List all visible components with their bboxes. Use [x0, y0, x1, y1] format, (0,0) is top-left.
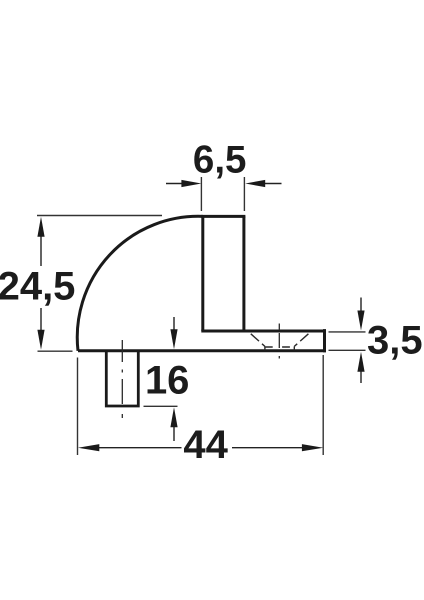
peg centerline [121, 340, 123, 418]
countersink hidden cone right [294, 334, 308, 347]
dimension 6,5 extension line left [200, 177, 202, 211]
dome arc [77, 216, 203, 350]
post right edge [242, 216, 245, 331]
dimension 16 extension line [144, 405, 178, 407]
dimension 6,5 left arrow [166, 180, 201, 187]
post top edge [201, 215, 245, 218]
dimension 16 up arrow [170, 407, 177, 441]
dimension 3,5 extension line bottom [329, 349, 366, 351]
svg-text:44: 44 [183, 423, 228, 467]
dimension 24,5 line lower segment with down arrow [37, 308, 44, 350]
countersink hole bottom hidden line [265, 346, 294, 348]
countersink centerline [278, 324, 280, 359]
countersink hole wall left [264, 346, 266, 350]
countersink hidden cone left [251, 334, 265, 347]
dimension 3,5 up arrow [357, 352, 364, 383]
svg-text:6,5: 6,5 [193, 138, 247, 181]
dimension 6,5 right arrow [245, 180, 281, 187]
post left edge [201, 216, 204, 331]
dimension 44 extension line right [322, 355, 324, 455]
dimension 44 line with right arrow [232, 444, 323, 451]
svg-text:24,5: 24,5 [0, 265, 75, 309]
plate top edge [201, 330, 324, 333]
base bottom edge [78, 349, 326, 352]
dimension 44 extension line left [77, 358, 79, 456]
dimension 44 label [183, 423, 228, 467]
countersink hole wall right [293, 346, 295, 350]
dimension 3,5 extension line top [329, 331, 366, 333]
dimension 16 label [145, 359, 190, 403]
dimension 44 line with left arrow [78, 444, 182, 451]
peg outline [106, 351, 138, 406]
dimension 24,5 label [0, 265, 75, 309]
dimension 24,5 extension line bottom [38, 350, 73, 352]
dimension 3,5 down arrow [357, 298, 364, 331]
dimension 6,5 extension line right [243, 177, 245, 211]
dimension 6,5 label [193, 138, 247, 181]
dimension 16 down arrow [170, 317, 177, 349]
plate right edge [323, 329, 326, 352]
dimension 24,5 line upper segment with up arrow [37, 217, 44, 266]
dimension 3,5 label [367, 319, 423, 363]
svg-text:3,5: 3,5 [367, 319, 423, 363]
dimension 24,5 extension line top [37, 215, 162, 217]
svg-text:16: 16 [145, 359, 190, 403]
